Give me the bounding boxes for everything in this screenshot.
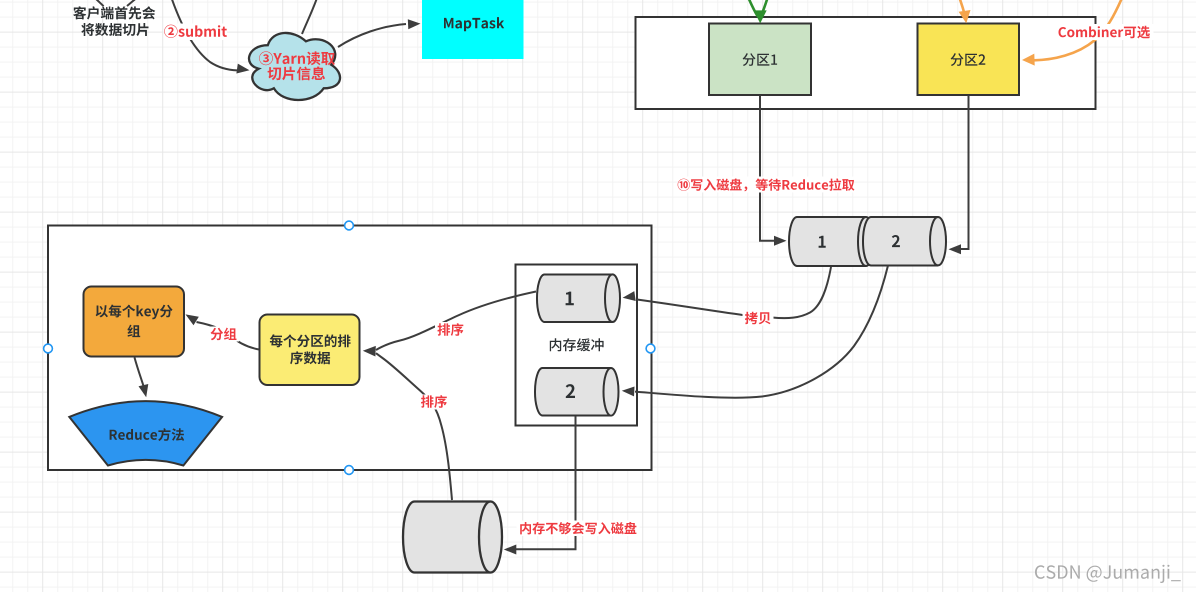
fan Reduce方法 [69,401,222,465]
box MapTask [422,0,524,59]
box 每个分区的排序数据 [260,315,360,386]
arrowhead into fan [139,384,149,397]
label 排序 lower [419,395,449,410]
disk cylinder (spill to disk) [403,502,490,573]
selection handle right [646,344,655,353]
big container rect (reduce side) [48,226,652,471]
wire 分区2 down to cylinder 2 [957,96,969,250]
cylinder 1 (map output) [789,217,866,266]
wire 排序 from buffer [376,292,536,351]
edge into client text (right) [127,0,137,6]
arrowhead into 每个分区的排序数据 [363,346,376,357]
edge into client text (left) [95,0,104,6]
label 分区1 [743,53,778,66]
label ②submit [164,24,228,41]
green arrowhead into 分区1 [754,10,767,23]
label 2 in buffer [566,384,575,398]
label 以每个key分组 [96,305,173,338]
text 客户端首先会将数据切片 [73,6,155,36]
wire cloud to MapTask [338,24,406,47]
green wire left branch [749,0,758,16]
wire submit curve to cloud [172,0,238,70]
box 内存缓冲 [516,265,638,426]
label MapTask [444,17,504,31]
cylinder 1 in buffer [537,275,613,323]
wire buffer to disk [514,416,576,549]
label 2 on cylinder [892,235,900,247]
selection handle top [345,221,354,230]
selection handle left [44,344,53,353]
cylinder 2 in buffer [535,368,611,416]
label 内存不够会写入磁盘 [517,521,640,537]
cylinder 2 (map output) [863,217,938,266]
arrowhead into cylinder 1 [774,236,787,246]
label 拷贝 [743,311,774,326]
cloud ③Yarn读取切片信息 [249,33,340,100]
arrowhead into disk [504,545,517,555]
box 以每个key分组 [84,287,185,357]
label 1 on cylinder [819,236,826,248]
arrowhead submit [236,64,249,74]
label Combiner可选 [1055,24,1154,40]
cloud label [259,51,335,80]
label ⑩写入磁盘，等待Reduce拉取 [678,177,854,193]
arrowhead into buffer cylinder 2 [622,387,635,397]
label 1 in buffer [566,292,574,306]
arrowhead into buffer cylinder 1 [623,291,636,301]
wire 以每个key分组 to Reduce方法 [135,358,144,387]
label 分组 [208,327,239,342]
arrowhead into cylinder 2 [949,244,962,254]
label 分区2 [951,53,986,66]
orange wire into 分区2 [960,0,965,15]
container rect (partitions) [636,17,1096,109]
selection handle bottom [345,466,354,475]
box 分区1 [709,24,811,96]
arrowhead into MapTask [408,19,421,29]
wire into cloud top [302,0,317,34]
orange arrowhead combiner [1022,54,1035,66]
wire 拷贝 curve [637,267,831,318]
box 分区2 [918,24,1020,96]
orange combiner wire [1034,0,1122,60]
wire cylinder2 to buffer cylinder 2 [635,266,888,398]
label 每个分区的排序数据 [270,334,351,364]
orange arrowhead into 分区2 [959,10,971,23]
label 排序 upper [435,322,465,337]
watermark CSDN @Jumanji_ [1035,565,1181,583]
green wire right branch [762,0,768,15]
label Reduce方法 [110,428,185,441]
arrowhead into 以每个key分组 [186,314,199,325]
label 内存缓冲 [550,338,604,351]
wire 分区1 down to cylinder 1 [760,96,777,241]
wire 排序 from disk [376,353,452,500]
wire 分组 curve [197,322,260,350]
